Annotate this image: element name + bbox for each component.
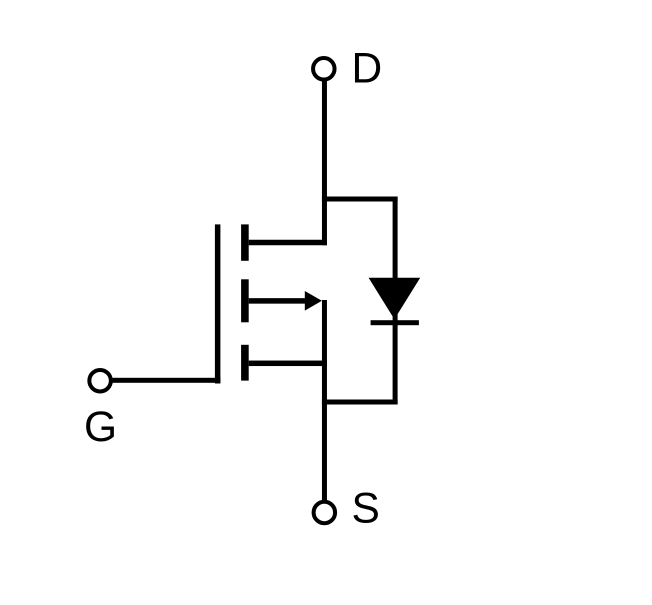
diode D1 body diode (anode triangle) xyxy=(369,278,421,320)
wire source lead (vertical from arrow tip to S terminal) xyxy=(322,300,327,502)
transistor Q1 gate line (vertical) xyxy=(215,224,221,383)
wire drain contact (horizontal from top segment to drain lead) xyxy=(249,240,327,246)
svg-text:G: G xyxy=(84,404,117,451)
wire gate lead (horizontal from G terminal to gate line) xyxy=(110,378,220,383)
wire drain-to-diode branch (horizontal top) xyxy=(322,197,398,202)
transistor Q1 channel segment top (drain) xyxy=(241,224,249,260)
wire drain lead (vertical from D terminal to top contact) xyxy=(322,80,327,246)
svg-text:S: S xyxy=(352,486,380,533)
terminal S (source pin circle) xyxy=(314,502,336,524)
terminal D (drain pin circle) xyxy=(313,58,335,80)
transistor Q1 channel segment middle (body) xyxy=(241,279,249,322)
diode D1 cathode bar xyxy=(371,320,419,325)
wire body contact arrow shaft xyxy=(249,298,307,304)
wire source contact (horizontal from bottom segment to source lead) xyxy=(249,361,327,367)
wire diode branch vertical xyxy=(393,197,398,405)
wire source-to-diode branch (horizontal bottom) xyxy=(322,400,398,405)
transistor Q1 channel segment bottom (source) xyxy=(241,345,249,381)
svg-text:D: D xyxy=(352,46,383,93)
terminal G (gate pin circle) xyxy=(89,370,111,392)
transistor Q1 body arrow head (points to source) xyxy=(305,291,322,311)
